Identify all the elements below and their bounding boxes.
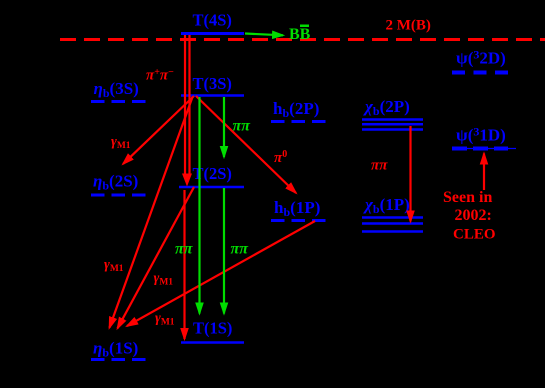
svg-text:ψ(32D): ψ(32D) [456, 48, 506, 68]
red arrow Y(2S)->eta_b(1S) gamma M1 [118, 187, 195, 328]
svg-text:ηb(3S): ηb(3S) [94, 79, 139, 100]
level h_b(1P) dashed [271, 219, 328, 222]
red dashed threshold line 2M(B) [60, 38, 545, 41]
red arrow Y(3S)->h_b(1P) pi0 [196, 96, 296, 193]
svg-text:χb(2P): χb(2P) [363, 97, 410, 118]
svg-text:ππ: ππ [175, 241, 194, 258]
level psi(3 1D) dash-dot [452, 148, 516, 150]
svg-text:Seen in: Seen in [443, 189, 492, 206]
svg-text:T(1S): T(1S) [193, 319, 232, 338]
svg-text:2 M(B): 2 M(B) [386, 18, 431, 34]
svg-text:hb(1P): hb(1P) [274, 198, 320, 219]
level Y(1S) [181, 341, 244, 344]
svg-text:ππ: ππ [371, 158, 388, 174]
level Y(4S) [181, 32, 244, 35]
level eta_b(1S) dashed [91, 358, 147, 361]
svg-text:T(3S): T(3S) [193, 74, 232, 93]
level Y(2S) [179, 186, 244, 189]
red arrow up to psi(1D) [483, 154, 485, 191]
svg-text:hb(2P): hb(2P) [273, 99, 319, 120]
red arrow h_b(1P)->eta_b(1S) gamma M1 [127, 221, 315, 326]
green arrow Y(4S)->BB [245, 34, 283, 36]
red double vertical arrow Y(4S)->Y(2S) pi+pi- [184, 35, 186, 176]
level eta_b(2S) dashed [91, 194, 148, 197]
svg-text:BB: BB [289, 26, 311, 43]
svg-text:ηb(1S): ηb(1S) [93, 339, 138, 360]
level eta_b(3S) dashed [91, 100, 148, 103]
level chi_b(2P) triple [362, 118, 423, 121]
level h_b(2P) dashed [271, 120, 328, 123]
svg-text:ψ(31D): ψ(31D) [456, 125, 506, 145]
svg-text:ππ: ππ [233, 118, 252, 135]
green arrow Y(3S)->Y(1S) pipi [198, 97, 200, 314]
svg-text:ηb(2S): ηb(2S) [93, 172, 138, 193]
svg-text:ππ: ππ [231, 241, 250, 258]
red vertical arrow ->Y(1S) [183, 190, 185, 339]
red arrow chi_b(2P)->chi_b(1P) pipi [409, 126, 411, 222]
green arrow Y(3S)->Y(2S) pipi [223, 97, 225, 157]
svg-text:χb(1P): χb(1P) [363, 195, 410, 216]
level Y(3S) [181, 94, 244, 97]
red arrow Y(3S)->eta_b(2S) gamma M1 [123, 96, 194, 164]
red arrow Y(3S)->eta_b(1S) gamma M1 [109, 97, 192, 328]
svg-text:2002:: 2002: [455, 207, 492, 224]
green arrow Y(2S)->Y(1S) pipi [223, 188, 225, 314]
level psi(3 2D) dashed [452, 71, 508, 75]
level chi_b(1P) triple [362, 216, 423, 219]
svg-text:T(4S): T(4S) [193, 11, 232, 30]
svg-text:CLEO: CLEO [453, 227, 496, 243]
